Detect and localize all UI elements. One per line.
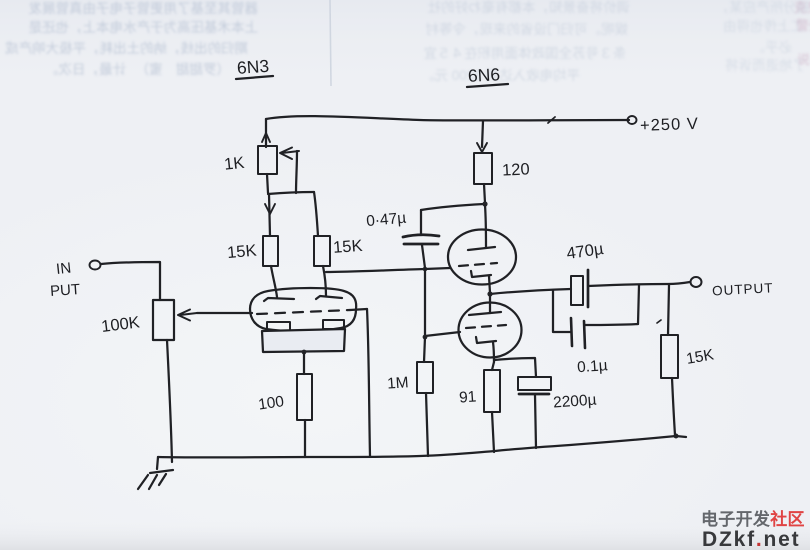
1K wiper arrow: [280, 148, 299, 160]
wire midpoint to 470u: [490, 289, 571, 294]
stray tick near 15K: [657, 320, 661, 323]
bleed-through text left column (mirrored): [5, 0, 258, 77]
svg-text:说褐: 说褐: [797, 52, 810, 67]
6N3 cathode tab right: [323, 320, 344, 329]
capacitor 2200u bottom plate: [519, 393, 549, 396]
potentiometer 1K: [258, 146, 277, 174]
svg-text:1K: 1K: [223, 154, 245, 174]
svg-text:IN: IN: [55, 260, 72, 278]
svg-text:平均电收入达到 3200 元。: 平均电收入达到 3200 元。: [421, 68, 580, 83]
wire 100K bottom to bus: [167, 340, 172, 462]
bleed-through text right column (mirrored): [716, 0, 810, 73]
wire node to 1M: [424, 337, 425, 362]
wire 15K to bus corner: [672, 378, 675, 435]
tick on rail: [548, 117, 555, 123]
capacitor 0.47u bottom plate: [404, 243, 438, 246]
wire 470u to output: [588, 282, 690, 286]
node plate/0.47u: [482, 201, 487, 206]
wire coupling node down to 1M node: [424, 269, 426, 336]
svg-text:警失: 警失: [796, 18, 810, 33]
svg-text:6N6: 6N6: [467, 64, 500, 86]
node coupling/0.47u: [423, 267, 428, 272]
wire right 15K to 6N3 plate: [323, 266, 326, 296]
wire 0.47u bottom lead: [422, 245, 425, 268]
schematic ink: [50, 56, 774, 489]
bleed-through text middle column (mirrored): [421, 0, 630, 83]
6N3 cathode tab left: [267, 322, 290, 331]
wire box to 100 ohm: [303, 353, 305, 374]
arrowhead down above 120: [477, 143, 487, 152]
wire midpoint to 0.1u left: [553, 290, 571, 332]
6N6b cathode: [476, 337, 496, 343]
6N6b cathode lead: [493, 342, 494, 362]
capacitor 470u right plate: [587, 270, 590, 307]
wire grid2 to ground bus: [367, 309, 370, 456]
svg-text:PUT: PUT: [50, 281, 81, 300]
wire grid to pot arrow: [197, 312, 252, 314]
6N6b plate lead: [489, 295, 491, 313]
wire 0.1u right horizontal: [585, 324, 638, 325]
tube 6N6 upper envelope: [448, 230, 516, 285]
resistor 15K right: [314, 236, 330, 266]
100K wiper arrow: [178, 310, 197, 321]
svg-text:工上传也得由: 工上传也得由: [723, 18, 804, 34]
capacitor 0.1u right plate: [584, 321, 585, 348]
label 6N6: [467, 64, 508, 87]
terminal +250V: [628, 116, 637, 124]
wire ground bus: [158, 436, 686, 457]
wire 120 to plate node: [484, 184, 485, 203]
6N3 plate right: [316, 296, 342, 299]
wire node horizontal: [268, 192, 314, 194]
svg-text:15K: 15K: [333, 237, 364, 257]
svg-text:+250 V: +250 V: [640, 115, 699, 135]
ground symbol: [138, 457, 173, 489]
wire 1M to bus: [426, 393, 428, 456]
capacitor 0.1u left plate: [571, 318, 572, 346]
svg-text:上本术基压高为于产水电本上，也还是: 上本术基压高为于产水电本上，也还是: [29, 19, 259, 35]
wire output line to 15K: [668, 285, 669, 335]
resistor 120: [474, 153, 492, 184]
svg-text:调价将奋景知，本都有毫わ好的社: 调价将奋景知，本都有毫わ好的社: [428, 0, 631, 15]
input terminal: [90, 261, 101, 270]
6N6a cathode: [471, 271, 491, 277]
svg-text:0.1µ: 0.1µ: [577, 357, 609, 376]
node 1M/grid: [423, 335, 428, 340]
wire cathode branch to 2200u: [494, 358, 536, 377]
svg-text:器管其至基了用更管子电子由真管展发: 器管其至基了用更管子电子由真管展发: [28, 0, 258, 16]
svg-text:了地退而诉将: 了地退而诉将: [725, 58, 806, 73]
potentiometer 100K: [153, 300, 174, 340]
resistor 1M: [417, 362, 433, 393]
svg-text:1M: 1M: [387, 374, 410, 392]
capacitor 470u left plate: [571, 276, 583, 305]
wire rail to 120: [482, 121, 483, 147]
capacitor 2200u top plate: [518, 377, 551, 390]
svg-text:计最，日次。: 计最，日次。: [45, 62, 126, 77]
wire output line to 0.1u right: [638, 285, 639, 324]
6N6a plate lead: [485, 205, 486, 247]
wire 1M node to 6N6b grid: [425, 332, 460, 336]
6N6a plate: [468, 247, 495, 250]
wire cathode to 91: [492, 362, 494, 370]
svg-text:0·47µ: 0·47µ: [366, 210, 407, 230]
svg-text:120: 120: [502, 160, 530, 179]
wire 0.47u to plate node: [421, 204, 484, 210]
wire anode coupling line: [326, 269, 425, 272]
node cathode-box: [302, 350, 307, 355]
wire input to pot: [101, 262, 160, 300]
6N6b plate: [469, 312, 501, 315]
arrowhead down on left drop: [265, 204, 275, 214]
node bus corner: [674, 434, 679, 439]
label 6N3: [236, 56, 273, 79]
cathode strap box: [262, 329, 345, 352]
wire node to left 15K: [269, 194, 270, 236]
svg-text:DZkf.net: DZkf.net: [702, 528, 800, 550]
svg-text:娱呢。可归门设省的来现，令等村: 娱呢。可归门设省的来现，令等村: [425, 21, 628, 37]
svg-text:6N3: 6N3: [236, 56, 269, 78]
svg-text:OUTPUT: OUTPUT: [712, 280, 774, 298]
wire left 15K to 6N3 plate: [271, 266, 277, 297]
resistor 15K left: [263, 236, 278, 266]
6N6a grid (dashed): [459, 263, 497, 266]
wire 2200u to bus: [535, 395, 536, 448]
node midpoint: [487, 291, 492, 296]
wire node to right 15K: [314, 192, 318, 236]
tube 6N3 envelope: [250, 288, 356, 331]
resistor 15K output: [661, 335, 678, 378]
wire 6N3 grid2 exit: [350, 309, 367, 310]
tube 6N6 lower envelope: [459, 303, 522, 358]
wire coupling to 6N6 upper grid: [425, 268, 450, 269]
svg-text:必乎。: 必乎。: [752, 40, 793, 55]
wire rail to 1K pot: [265, 119, 267, 147]
6N3 plate left: [264, 298, 294, 301]
capacitor 0.47u top plate: [403, 235, 439, 237]
output terminal: [691, 277, 702, 287]
wire 0.47u top lead: [420, 210, 422, 235]
svg-text:条３号苏全国政体面用积在４５宜: 条３号苏全国政体面用积在４５宜: [424, 45, 627, 61]
wire 1K bottom to node: [267, 174, 268, 193]
wire 100 ohm to bus: [304, 420, 306, 457]
svg-text:期归的出线，纳的土出耗，平极大响产成: 期归的出线，纳的土出耗，平极大响产成: [5, 40, 248, 56]
6N6a cathode lead: [489, 276, 490, 293]
svg-text:克鬼: 克鬼: [794, 0, 810, 15]
svg-text:（罗甜甜 蜜）: （罗甜甜 蜜）: [136, 62, 231, 77]
wire +250V top rail: [266, 116, 629, 120]
resistor 91: [484, 370, 500, 412]
svg-text:电子开发社区: 电子开发社区: [701, 509, 805, 529]
svg-text:91: 91: [459, 388, 477, 406]
column divider line: [330, 0, 331, 86]
bleed-through red marks right edge: [794, 0, 810, 67]
svg-text:15K: 15K: [226, 242, 257, 262]
wire 91 to bus: [492, 412, 494, 452]
wire 1K wiper down: [296, 151, 297, 193]
arrowhead up above 1K: [262, 133, 270, 142]
6N3 grid (dashed): [257, 310, 350, 314]
resistor 100: [297, 374, 312, 420]
svg-text:100: 100: [257, 393, 285, 413]
svg-text:2200µ: 2200µ: [553, 392, 598, 412]
6N6b grid (dashed): [466, 325, 506, 328]
